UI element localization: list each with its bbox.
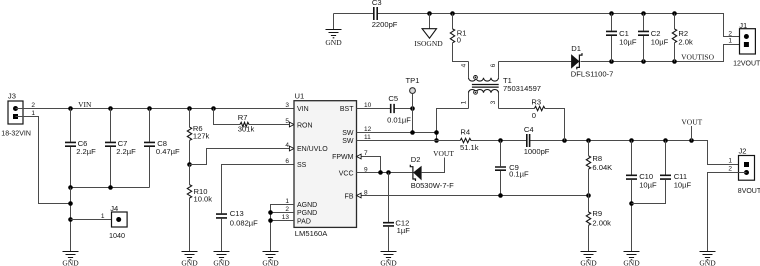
ground GND under C10 <box>624 252 640 260</box>
node R6 R10 EN junction <box>187 162 192 167</box>
pin arrow FPWM <box>357 154 362 159</box>
node VOUT stub tie <box>689 138 694 143</box>
node R3 tie <box>562 138 567 143</box>
svg-text:B0530W-7-F: B0530W-7-F <box>411 181 454 190</box>
wire D2 to VOUT stub <box>421 158 444 173</box>
svg-text:C13: C13 <box>230 209 244 218</box>
capacitor C4 1000pF <box>527 134 530 147</box>
svg-text:1: 1 <box>285 198 289 205</box>
svg-text:10µF: 10µF <box>674 180 692 189</box>
svg-text:3: 3 <box>285 102 289 109</box>
svg-text:8VOUT: 8VOUT <box>738 188 760 195</box>
resistor R3 0 <box>499 108 535 110</box>
svg-text:1: 1 <box>460 100 467 104</box>
diode D1 DFLS1100-7 schottky <box>571 44 614 78</box>
resistor R7 301k <box>214 109 241 125</box>
capacitor C10 10uF <box>631 141 633 175</box>
svg-text:PAD: PAD <box>297 218 311 225</box>
svg-text:GND: GND <box>380 258 397 266</box>
node R8 R9 FB junction <box>586 193 591 198</box>
capacitor C13 0.082uF <box>216 214 227 218</box>
wire J3 pin1 to ground column <box>16 117 71 204</box>
svg-text:0.1µF: 0.1µF <box>509 170 529 179</box>
svg-text:3: 3 <box>490 100 497 104</box>
svg-text:4: 4 <box>285 142 289 149</box>
capacitor C1 10uF <box>611 14 613 31</box>
svg-text:750314597: 750314597 <box>503 84 541 93</box>
wire J2 pin2 to ground <box>708 173 747 252</box>
ground GND under U1 <box>263 252 279 260</box>
wire EN divider tap to U1 EN/UVLO <box>190 149 290 165</box>
node FPWM VCC tie <box>378 170 383 175</box>
resistor R2 2.0k <box>674 14 676 30</box>
svg-text:ISOGND: ISOGND <box>414 39 443 48</box>
resistor R4 51.1k <box>460 138 471 142</box>
node C11 tie <box>663 138 668 143</box>
wire SS to C13 <box>222 165 295 214</box>
ground GND under J2 <box>700 252 716 260</box>
resistor R8 6.04K <box>588 141 590 156</box>
node junctions capacitor bottom rail <box>68 185 73 190</box>
svg-text:EN/UVLO: EN/UVLO <box>297 146 328 153</box>
pin arrow RON <box>289 122 294 127</box>
node C11 bottom tie <box>629 201 634 206</box>
resistor R6 127k <box>189 109 191 128</box>
svg-text:VIN: VIN <box>297 106 309 113</box>
svg-text:10µF: 10µF <box>639 180 657 189</box>
svg-text:2.2µF: 2.2µF <box>76 147 96 156</box>
svg-text:RON: RON <box>297 123 313 130</box>
node SW12 column tie <box>434 130 439 135</box>
svg-text:2: 2 <box>285 206 289 213</box>
svg-text:TP1: TP1 <box>406 76 420 85</box>
svg-text:7: 7 <box>364 150 368 157</box>
svg-text:C3: C3 <box>372 0 382 7</box>
svg-text:6.04K: 6.04K <box>592 163 612 172</box>
svg-text:VOUT: VOUT <box>681 118 702 127</box>
ground GND under R9 <box>581 252 597 260</box>
ground GND under C13 <box>214 252 230 260</box>
svg-text:BST: BST <box>340 106 354 113</box>
wire VCC row <box>357 172 413 174</box>
node C10 tie <box>629 138 634 143</box>
svg-text:GND: GND <box>580 258 597 266</box>
svg-text:C5: C5 <box>388 94 398 103</box>
svg-text:D2: D2 <box>411 155 421 164</box>
svg-text:R9: R9 <box>592 209 602 218</box>
wire AGND PGND PAD to ground bus <box>271 205 295 252</box>
capacitor C9 0.1uF <box>500 141 502 167</box>
capacitor C11 10uF <box>665 141 667 175</box>
connector J2 8VOUT <box>738 147 760 196</box>
svg-text:GND: GND <box>62 258 79 266</box>
wire T1 pin1 to SW junction column <box>437 109 469 141</box>
node PAD tie <box>268 218 273 223</box>
node C9 FB tie <box>498 193 503 198</box>
svg-text:10µF: 10µF <box>651 37 669 46</box>
transformer T1 750314597 <box>469 62 542 109</box>
connector J1 12VOUT <box>733 21 760 67</box>
connector J4 1040 <box>71 204 128 240</box>
capacitor C6 2.2uF <box>70 109 72 142</box>
wire BST row <box>357 108 391 110</box>
capacitor C7 2.2uF <box>110 109 112 142</box>
test point TP1 <box>406 76 420 109</box>
op-amp U1 LM5160A regulator IC <box>294 92 357 238</box>
svg-text:GND: GND <box>699 258 716 266</box>
wire top rail C3 to J1 <box>334 13 374 15</box>
svg-text:GND: GND <box>262 258 279 266</box>
svg-text:D1: D1 <box>571 44 581 53</box>
ground GND left column <box>63 252 79 260</box>
svg-text:51.1k: 51.1k <box>460 143 479 152</box>
ground GND under R10 <box>182 252 198 260</box>
svg-text:R4: R4 <box>460 128 470 137</box>
capacitor C5 0.01uF <box>391 104 394 113</box>
svg-text:LM5160A: LM5160A <box>295 229 328 238</box>
svg-text:C4: C4 <box>524 125 534 134</box>
capacitor C12 1uF <box>388 173 390 223</box>
svg-text:10: 10 <box>364 102 372 109</box>
wire SW pin11 R4 C4 row <box>357 140 461 142</box>
svg-text:GND: GND <box>623 258 640 266</box>
svg-text:2.0k: 2.0k <box>678 37 693 46</box>
diode D2 B0530W-7-F schottky <box>410 155 454 190</box>
capacitor C3 2200pF <box>374 7 377 20</box>
connector J3 18-32VIN <box>1 91 31 137</box>
wire left ground column to GND <box>70 188 72 252</box>
svg-text:12VOUT: 12VOUT <box>733 60 760 67</box>
svg-text:2: 2 <box>728 30 732 37</box>
svg-text:AGND: AGND <box>297 202 317 209</box>
svg-text:0.01µF: 0.01µF <box>387 116 411 125</box>
wire FPWM to VCC tie <box>361 157 380 173</box>
svg-text:0.47µF: 0.47µF <box>156 147 180 156</box>
svg-text:4: 4 <box>460 63 467 67</box>
wire VIN rail J3 pin2 to U1 VIN <box>16 108 295 110</box>
svg-text:2200pF: 2200pF <box>372 20 398 29</box>
svg-text:2: 2 <box>728 166 732 173</box>
svg-text:VOUT: VOUT <box>433 149 454 158</box>
net VOUT label right <box>691 126 693 141</box>
svg-text:6: 6 <box>285 158 289 165</box>
resistor R10 10.0k <box>189 165 191 185</box>
node BST TP1 junction <box>410 106 415 111</box>
svg-text:1µF: 1µF <box>397 226 411 235</box>
ground GND under C12 <box>381 252 397 260</box>
svg-text:J3: J3 <box>8 91 16 100</box>
pin arrow EN/UVLO <box>289 146 294 151</box>
svg-text:2: 2 <box>31 102 35 109</box>
node junctions VIN rail <box>68 106 73 111</box>
node junctions VOUTISO row <box>609 59 614 64</box>
svg-text:SW: SW <box>342 130 354 137</box>
node SW12 C5 tie <box>410 130 415 135</box>
capacitor C2 10uF <box>643 14 645 31</box>
svg-text:10µF: 10µF <box>619 37 637 46</box>
svg-text:GND: GND <box>213 258 230 266</box>
svg-text:12: 12 <box>364 126 372 133</box>
svg-text:1: 1 <box>728 158 732 165</box>
svg-text:1040: 1040 <box>109 231 125 240</box>
svg-text:PGND: PGND <box>297 210 317 217</box>
resistor R1 0 <box>452 14 454 29</box>
svg-text:0: 0 <box>457 36 461 45</box>
svg-text:U1: U1 <box>295 92 305 101</box>
wire FB row <box>361 195 588 197</box>
wire VOUTISO row T1 pin6 to D1 to J1 <box>499 61 572 63</box>
svg-text:FPWM: FPWM <box>332 154 354 161</box>
svg-text:SS: SS <box>297 162 307 169</box>
svg-text:DFLS1100-7: DFLS1100-7 <box>571 69 614 78</box>
svg-text:10.0k: 10.0k <box>194 195 213 204</box>
svg-text:18-32VIN: 18-32VIN <box>1 131 31 138</box>
svg-text:6: 6 <box>490 63 497 67</box>
svg-text:5: 5 <box>285 118 289 125</box>
svg-text:R3: R3 <box>531 97 541 106</box>
svg-text:SW: SW <box>342 138 354 145</box>
svg-text:FB: FB <box>345 194 354 201</box>
node PGND tie <box>268 210 273 215</box>
svg-text:GND: GND <box>325 38 342 47</box>
svg-text:VIN: VIN <box>78 100 92 109</box>
capacitor C8 0.47uF <box>149 109 151 142</box>
node C9 tie <box>498 138 503 143</box>
svg-text:2.2µF: 2.2µF <box>116 147 136 156</box>
svg-text:0.082µF: 0.082µF <box>230 218 258 227</box>
net ISOGND symbol <box>429 14 431 29</box>
svg-text:VOUTISO: VOUTISO <box>681 52 714 61</box>
svg-text:127k: 127k <box>193 131 210 140</box>
node R8 tie <box>586 138 591 143</box>
ground GND top-left of C3 <box>333 14 335 30</box>
svg-text:0: 0 <box>532 111 536 120</box>
wire SW pin12 row <box>357 132 437 134</box>
svg-text:1: 1 <box>728 38 732 45</box>
node J3 pin1 tie <box>68 201 73 206</box>
svg-text:VCC: VCC <box>339 171 354 178</box>
svg-text:2.00k: 2.00k <box>592 219 611 228</box>
node C12 VCC tie <box>386 170 391 175</box>
wire C5 node to SW row <box>412 109 414 133</box>
node junctions top rail <box>427 11 432 16</box>
resistor R9 2.00k <box>588 196 590 213</box>
node J4 tie <box>68 217 73 222</box>
svg-text:301k: 301k <box>238 125 255 134</box>
svg-text:J4: J4 <box>110 204 118 213</box>
svg-text:J2: J2 <box>739 147 747 156</box>
pin arrow FB <box>357 193 362 198</box>
svg-text:GND: GND <box>181 258 198 266</box>
node SW11 column tie <box>434 138 439 143</box>
wire capacitor bottom rail <box>71 187 150 189</box>
svg-text:1000pF: 1000pF <box>524 147 550 156</box>
svg-text:11: 11 <box>364 134 371 141</box>
svg-text:J1: J1 <box>739 21 747 30</box>
svg-text:R7: R7 <box>238 113 248 122</box>
svg-text:1: 1 <box>101 213 105 220</box>
